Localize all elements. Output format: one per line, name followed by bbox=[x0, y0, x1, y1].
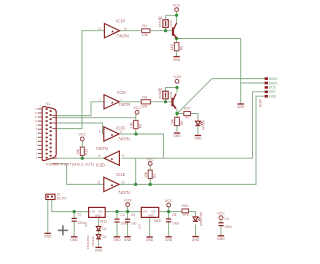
wire X1 pin run to VCC stem bbox=[57, 117, 136, 119]
svg-text:VCC: VCC bbox=[79, 133, 87, 137]
svg-text:470: 470 bbox=[184, 107, 190, 111]
svg-text:C4: C4 bbox=[224, 217, 228, 221]
svg-text:7407N: 7407N bbox=[118, 137, 130, 142]
svg-text:IC3D: IC3D bbox=[96, 162, 105, 167]
svg-text:14: 14 bbox=[124, 27, 128, 31]
svg-text:4148: 4148 bbox=[169, 20, 173, 27]
node VCC tap bbox=[167, 210, 170, 213]
wire IC3A out through R4 to Q2 base bbox=[120, 101, 172, 103]
svg-text:10K: 10K bbox=[141, 104, 148, 108]
supply vcc c4 bbox=[217, 212, 225, 220]
svg-text:7805: 7805 bbox=[153, 219, 161, 223]
wire VCC to Q1 collector bbox=[176, 11, 178, 23]
wire IC5 gnd to D1 bbox=[98, 218, 100, 227]
wire rail to C2 bbox=[116, 212, 118, 219]
connector JP1 ICSP bbox=[259, 77, 278, 107]
node Q1 emitter bbox=[175, 37, 178, 40]
svg-text:220u: 220u bbox=[78, 221, 86, 225]
component Q2 (box symbol) bbox=[158, 88, 173, 99]
regulator IC5 7812 bbox=[84, 207, 107, 227]
wire C1 to GND bbox=[73, 222, 75, 237]
svg-text:D2: D2 bbox=[102, 235, 106, 239]
svg-text:red led: red led bbox=[201, 120, 205, 130]
wire node to C5 bbox=[168, 212, 170, 219]
wire C5 to GND bbox=[168, 222, 170, 237]
resistor R4 10K bbox=[141, 95, 150, 108]
svg-text:1N4148x2: 1N4148x2 bbox=[86, 235, 90, 249]
wire VCC stem bottom bbox=[168, 207, 170, 212]
resistor R11 470 bbox=[182, 204, 189, 217]
svg-text:10: 10 bbox=[121, 181, 125, 185]
node IC1E out A bbox=[134, 183, 137, 186]
op-amp buffer IC1E 7407N bbox=[97, 172, 130, 195]
svg-text:R7: R7 bbox=[185, 115, 190, 119]
svg-text:VCC: VCC bbox=[133, 106, 141, 110]
node C1 tap bbox=[73, 210, 76, 213]
svg-text:GND: GND bbox=[194, 137, 202, 141]
wire X1 to IC1E input bbox=[57, 164, 104, 185]
svg-text:IC1P: IC1P bbox=[116, 19, 125, 24]
wire link IC3D-in / IC1E-out bbox=[135, 158, 137, 184]
transistor T1 bbox=[172, 23, 177, 38]
svg-text:GND: GND bbox=[70, 238, 78, 242]
node Q2 base bbox=[164, 100, 167, 103]
svg-text:5: 5 bbox=[99, 130, 101, 134]
supply vcc q1 bbox=[173, 3, 181, 11]
resistor R2 10K bbox=[144, 170, 157, 178]
svg-text:IC1E: IC1E bbox=[116, 172, 125, 177]
wire branch to ICSP pin 2 bbox=[241, 82, 265, 84]
wire IC5 out to IC2 in bbox=[105, 211, 141, 213]
ground g1 bbox=[173, 57, 181, 62]
svg-text:1N4148: 1N4148 bbox=[91, 236, 95, 247]
node IC3C out bbox=[134, 132, 137, 135]
svg-text:470: 470 bbox=[183, 213, 189, 217]
svg-text:GND: GND bbox=[124, 238, 132, 242]
wire +12V to Q2 collector bbox=[176, 86, 178, 93]
wire VCC to R2 bbox=[149, 166, 151, 171]
svg-text:100n: 100n bbox=[172, 221, 180, 225]
svg-text:1K5: 1K5 bbox=[170, 44, 174, 50]
svg-text:DC IN: DC IN bbox=[57, 196, 67, 200]
node Q1 vcc bbox=[175, 14, 178, 17]
ground g13 bbox=[217, 236, 225, 241]
supply vcc rail bbox=[165, 199, 173, 207]
node C2 tap bbox=[115, 210, 118, 213]
wire ICSP pin 1 wire bbox=[212, 78, 265, 80]
wire IC1P input from X1 bbox=[57, 31, 105, 129]
polarity mark C1 bbox=[58, 225, 68, 235]
svg-text:GND: GND bbox=[95, 213, 101, 217]
svg-text:MISO: MISO bbox=[269, 81, 278, 85]
svg-text:4148: 4148 bbox=[169, 91, 173, 98]
LED LED2 bbox=[193, 212, 203, 226]
op-amp buffer IC3A 7407N bbox=[99, 90, 130, 109]
wire IC3D out to X1 (pullup net) bbox=[57, 157, 105, 159]
transistor T2 bbox=[171, 94, 176, 109]
svg-text:10K: 10K bbox=[170, 118, 174, 125]
resistor R10 10K bbox=[76, 147, 89, 155]
supply +12v q2 bbox=[173, 75, 182, 83]
diode D2 bbox=[96, 235, 106, 239]
diode D1 bbox=[96, 226, 106, 230]
svg-text:GND: GND bbox=[44, 235, 52, 239]
svg-text:+12V: +12V bbox=[123, 198, 132, 202]
node pullup A bbox=[81, 157, 84, 160]
LED LED1 bbox=[196, 120, 206, 130]
svg-text:10K: 10K bbox=[142, 33, 149, 37]
svg-text:C2: C2 bbox=[120, 213, 124, 217]
resistor 470 R7 bbox=[184, 107, 191, 120]
capacitor C4 100n bbox=[218, 217, 232, 229]
wire R2 to IC1E out bbox=[149, 179, 151, 185]
svg-text:PWR25 PORT(MALE D25): PWR25 PORT(MALE D25) bbox=[46, 163, 94, 167]
wire R8 to GND bbox=[176, 51, 178, 57]
ground g9 bbox=[124, 237, 132, 242]
svg-text:GND: GND bbox=[269, 95, 277, 99]
svg-text:GND: GND bbox=[173, 134, 181, 138]
wire jog to D/box top bbox=[166, 15, 177, 20]
wire D2 to GND bbox=[98, 239, 100, 247]
wire IC3A input from X1 bbox=[57, 102, 104, 116]
resistor R5 10K bbox=[129, 120, 142, 128]
wire box bottom to base bbox=[165, 27, 167, 30]
wire R10 to net bbox=[81, 156, 83, 159]
ground g8 bbox=[113, 237, 121, 242]
wire VCC to C4 bbox=[220, 220, 222, 223]
wire C3 to GND bbox=[127, 222, 129, 236]
svg-text:GND: GND bbox=[146, 238, 154, 242]
wire C4 to GND bbox=[220, 226, 222, 236]
svg-text:R5: R5 bbox=[138, 124, 142, 128]
svg-text:10K: 10K bbox=[76, 148, 80, 155]
ground g12 bbox=[192, 237, 200, 242]
svg-text:R11: R11 bbox=[182, 204, 188, 208]
svg-text:power led: power led bbox=[199, 212, 203, 226]
wire IC3C out to net line bbox=[118, 134, 163, 158]
svg-text:GND: GND bbox=[148, 213, 154, 217]
op-amp buffer IC1P 7407N bbox=[98, 19, 129, 39]
component Q1 (box symbol) bbox=[158, 16, 173, 27]
svg-text:GND: GND bbox=[237, 105, 245, 109]
wire Q1 emitter run to right/GND bbox=[177, 39, 241, 104]
wire diagonal wire bbox=[177, 79, 212, 114]
svg-text:R10: R10 bbox=[85, 149, 89, 155]
node Q1 base bbox=[164, 29, 167, 32]
capacitor C2 100n bbox=[114, 213, 128, 225]
svg-text:IC3A: IC3A bbox=[117, 90, 126, 95]
supply vcc r5 bbox=[133, 106, 141, 114]
ground g2 bbox=[237, 104, 245, 109]
ground g3 bbox=[194, 136, 202, 141]
resistor R1 10K bbox=[142, 24, 150, 37]
wire VCC to R10 bbox=[81, 141, 83, 147]
svg-text:VCC: VCC bbox=[173, 3, 181, 7]
ground g4 bbox=[173, 133, 181, 138]
svg-text:GND: GND bbox=[173, 58, 181, 62]
svg-text:9: 9 bbox=[122, 154, 124, 158]
svg-text:100n: 100n bbox=[224, 225, 232, 229]
svg-text:GND: GND bbox=[192, 238, 200, 242]
svg-text:R8: R8 bbox=[179, 46, 183, 50]
svg-text:GND: GND bbox=[113, 238, 121, 242]
svg-text:SCK: SCK bbox=[269, 86, 277, 90]
wire C2 to GND bbox=[116, 222, 118, 236]
ground g7 bbox=[95, 247, 103, 252]
svg-text:BC547: BC547 bbox=[158, 17, 162, 27]
wire +12V stem bbox=[127, 207, 129, 212]
svg-text:VCC: VCC bbox=[165, 199, 173, 203]
svg-text:8: 8 bbox=[98, 154, 100, 158]
wire rail to C1 bbox=[73, 212, 75, 219]
regulator IC2 7805 bbox=[137, 207, 160, 229]
svg-text:R9: R9 bbox=[180, 121, 184, 125]
wire R5 to IC3C out bbox=[135, 129, 137, 134]
svg-text:D1: D1 bbox=[102, 227, 106, 231]
wire J2 pin1 to GND bbox=[47, 199, 49, 233]
svg-text:GND: GND bbox=[165, 238, 173, 242]
svg-text:RST: RST bbox=[269, 90, 276, 94]
resistor R9 10K bbox=[170, 117, 183, 125]
svg-text:C3: C3 bbox=[131, 213, 135, 217]
supply vcc r10 bbox=[79, 133, 87, 141]
svg-text:VCC: VCC bbox=[217, 212, 225, 216]
svg-text:VCC: VCC bbox=[146, 157, 154, 161]
svg-text:R1: R1 bbox=[142, 24, 147, 28]
svg-text:1: 1 bbox=[99, 98, 101, 102]
wire box bottom to base bbox=[165, 99, 167, 102]
wire D1 to D2 bbox=[98, 231, 100, 235]
svg-text:10u: 10u bbox=[131, 222, 137, 226]
connector X1 PRINTER PORT (MALE D25) bbox=[35, 102, 94, 166]
wire R7 to LED bbox=[191, 114, 198, 122]
wire rail to C3 bbox=[127, 212, 129, 219]
supply +12v rail bbox=[123, 198, 132, 206]
svg-text:7407N: 7407N bbox=[117, 34, 129, 39]
wire VCC node to R11 bbox=[169, 211, 182, 213]
svg-text:7407N: 7407N bbox=[96, 146, 108, 151]
svg-text:R2: R2 bbox=[153, 174, 157, 178]
wire jog to box top bbox=[166, 88, 178, 92]
svg-text:R4: R4 bbox=[142, 95, 147, 99]
svg-text:7407N: 7407N bbox=[118, 190, 130, 195]
node +12V tap bbox=[126, 210, 129, 213]
op-amp buffer IC3C 7407N bbox=[99, 125, 130, 141]
node Q2 emitter bbox=[175, 112, 178, 115]
wire R11 to LED2 bbox=[189, 212, 196, 217]
wire VCC to R5 bbox=[135, 114, 137, 120]
supply vcc r2 bbox=[146, 157, 154, 165]
ground g6 bbox=[70, 237, 78, 242]
svg-text:C5: C5 bbox=[172, 213, 176, 217]
svg-text:C1: C1 bbox=[78, 212, 82, 216]
svg-text:+12V: +12V bbox=[173, 75, 182, 79]
wire IC2 gnd to GND bbox=[149, 218, 151, 237]
ground g5 bbox=[44, 233, 52, 238]
wire Q2 emitter to R9 bbox=[176, 109, 178, 117]
capacitor C5 100n bbox=[166, 213, 180, 225]
node Q2 vcc bbox=[175, 86, 178, 89]
ground g10 bbox=[146, 237, 154, 242]
svg-text:2: 2 bbox=[120, 98, 122, 102]
svg-text:+IN: +IN bbox=[143, 209, 148, 213]
capacitor C1 220u bbox=[72, 212, 86, 224]
svg-text:BC547: BC547 bbox=[158, 89, 162, 99]
resistor R8 1K5 bbox=[170, 43, 183, 51]
op-amp buffer IC3D 7407N bbox=[96, 146, 125, 167]
svg-text:GND: GND bbox=[95, 249, 103, 253]
svg-text:6: 6 bbox=[120, 130, 122, 134]
svg-text:MOSI: MOSI bbox=[269, 77, 278, 81]
svg-text:ICSP: ICSP bbox=[259, 98, 263, 107]
wire IC3C input from X1 bbox=[57, 123, 104, 134]
wire IC1P out through R1 to Q1 base bbox=[120, 30, 172, 32]
wire J2 to IC5 in bbox=[52, 199, 89, 211]
wire IC1E out to ICSP bbox=[118, 96, 264, 184]
svg-text:11: 11 bbox=[98, 27, 102, 31]
ground g11 bbox=[165, 237, 173, 242]
svg-text:11: 11 bbox=[97, 181, 101, 185]
wire LED2 to GND bbox=[195, 225, 197, 237]
wire Q1 emitter to R8 bbox=[176, 38, 178, 43]
wire R9 to GND bbox=[176, 126, 178, 132]
svg-text:IC2: IC2 bbox=[137, 224, 141, 229]
wire IC2 out to VCC node bbox=[159, 211, 169, 213]
wire emitter to R7 bbox=[177, 113, 184, 115]
connector J2 DC IN bbox=[46, 193, 67, 201]
svg-text:7407N: 7407N bbox=[118, 102, 130, 107]
svg-text:10K: 10K bbox=[144, 171, 148, 178]
svg-text:GND: GND bbox=[217, 237, 225, 241]
svg-text:X1: X1 bbox=[46, 102, 51, 106]
wire LED to GND bbox=[197, 127, 199, 135]
node IC1E out B bbox=[149, 183, 152, 186]
svg-text:10K: 10K bbox=[129, 121, 133, 128]
svg-text:7812: 7812 bbox=[100, 219, 108, 223]
capacitor C3 10u bbox=[125, 213, 137, 225]
wire IC3D input net to ICSP bbox=[122, 92, 265, 158]
